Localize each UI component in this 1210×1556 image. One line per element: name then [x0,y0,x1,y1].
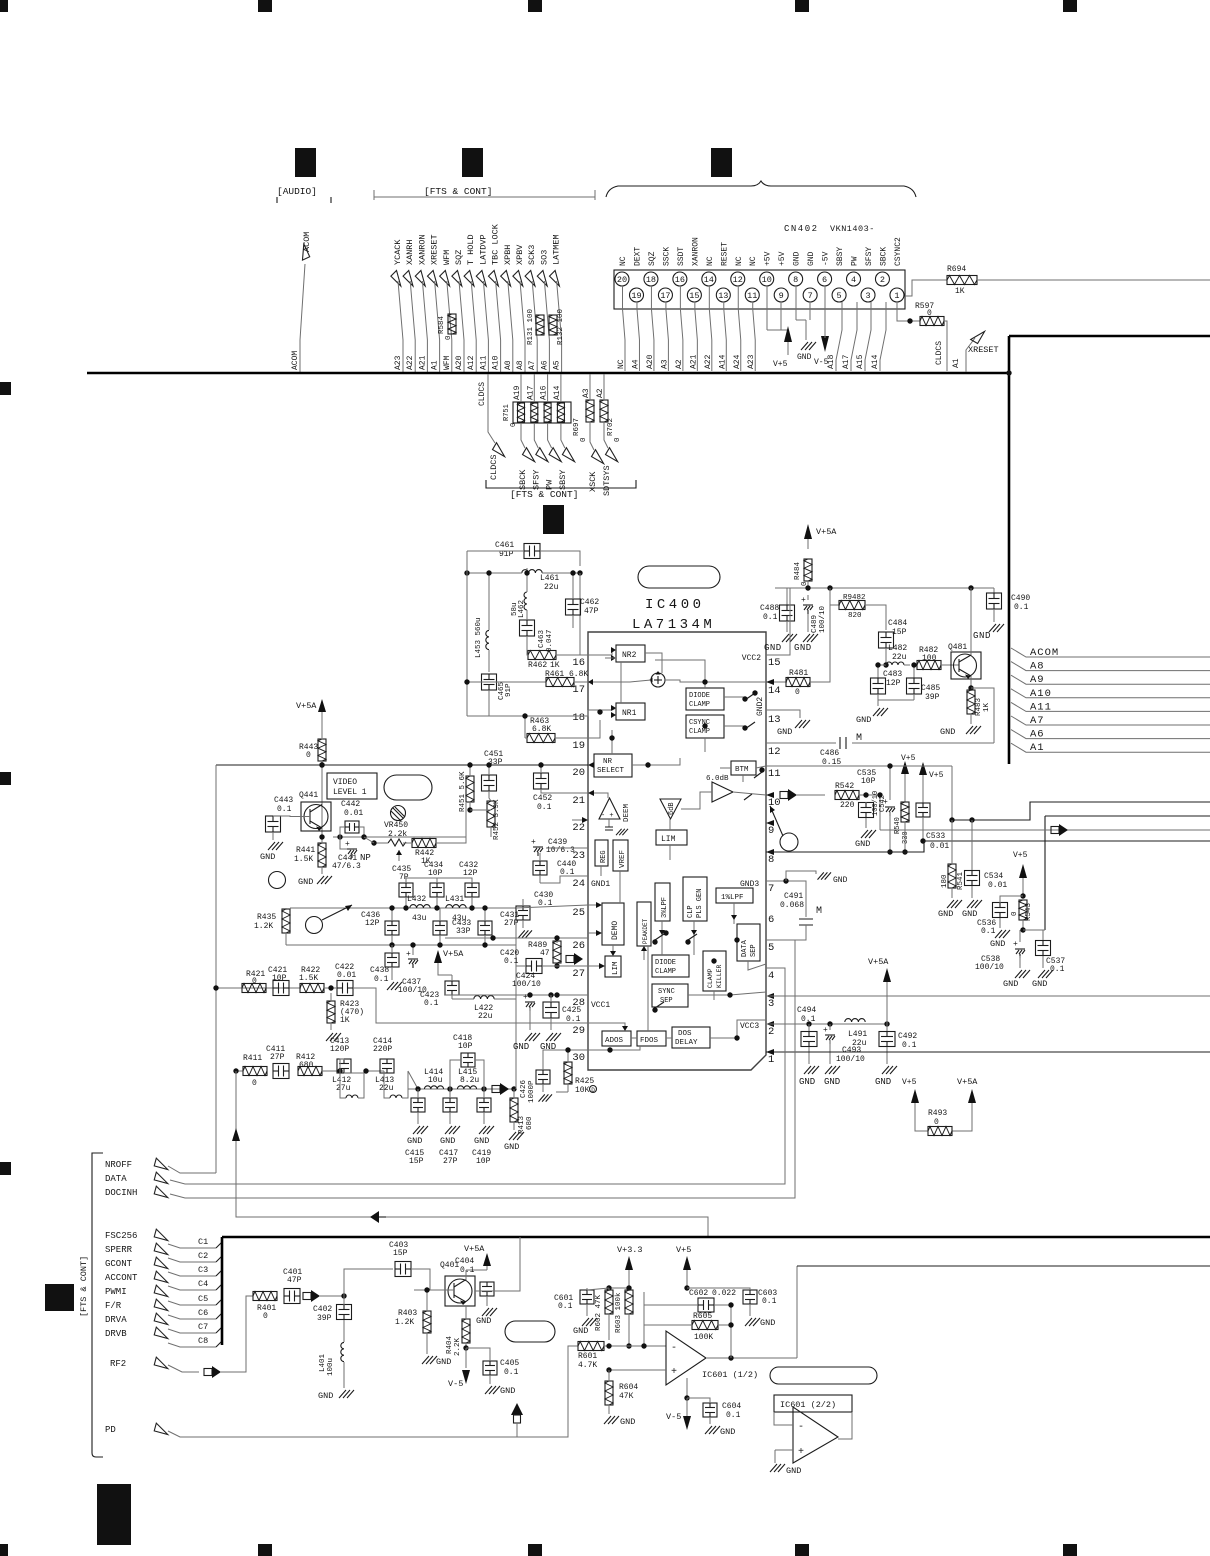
svg-text:0.1: 0.1 [1050,965,1065,974]
svg-text:13: 13 [718,291,728,301]
svg-text:PD: PD [105,1425,116,1435]
svg-text:11: 11 [747,291,757,301]
wire A7 line [1011,716,1210,725]
wire lower ladder [408,1088,514,1090]
wire arrow line [236,1071,708,1237]
svg-text:10P: 10P [272,974,287,983]
svg-text:120P: 120P [330,1045,349,1054]
svg-text:GND: GND [298,877,313,887]
capacitor C403 15P [395,1262,411,1277]
svg-text:R484: R484 [794,561,802,580]
svg-text:R132 100: R132 100 [557,308,565,345]
power V+5A pin2 [883,968,891,982]
svg-text:100u: 100u [327,1358,335,1376]
wire CLDCS drop [944,321,947,371]
svg-text:R452 3.9K: R452 3.9K [493,799,501,840]
svg-text:8: 8 [768,854,774,866]
svg-text:GND: GND [875,1077,891,1087]
svg-text:GND: GND [973,631,991,641]
svg-text:0: 0 [510,423,518,427]
svg-text:GND: GND [540,1042,556,1052]
svg-text:NC: NC [617,359,626,369]
svg-text:GND1: GND1 [591,880,610,889]
svg-text:C483: C483 [883,670,902,679]
block VREF [613,840,628,871]
resistor R603 100k [625,1290,633,1314]
capacitor C536 0.1 [993,903,1008,918]
block CLAMP KILLER [703,951,726,991]
wire pin10 net [797,794,825,796]
wire C461 loop top [467,550,524,552]
svg-text:[FTS & CONT]: [FTS & CONT] [79,1256,89,1317]
svg-text:22u: 22u [892,653,907,662]
wire Q481 to pin12 line [971,688,994,743]
CN402 pin 11 [745,288,759,302]
power +5V at CN402 [766,286,768,330]
svg-text:XPBH: XPBH [503,245,513,265]
capacitor C405 0.1 [483,1361,497,1375]
svg-text:10K: 10K [575,1086,590,1095]
wire ACOM to bus [300,264,305,372]
power V+5 R543 [1019,864,1027,878]
block CSYNC CLAMP [686,715,724,738]
CN402 pin 15 [687,288,701,302]
wire T HOLD to bus [471,281,476,372]
adjust circle 2 [306,917,323,934]
svg-text:-: - [798,1422,804,1433]
svg-text:R751: R751 [503,404,511,421]
svg-text:15P: 15P [409,1157,424,1166]
svg-text:A5: A5 [553,360,562,370]
wire thick C bus [221,1237,224,1345]
block DEMO [602,903,624,945]
wire pin29 net [445,1022,588,1024]
svg-text:2.2k: 2.2k [388,830,407,839]
wire CN402 pin drop A3 [665,302,667,309]
wire pin19 net [588,720,600,738]
svg-text:A24: A24 [733,354,742,369]
svg-text:V-5: V-5 [666,1412,681,1422]
wire SQZ to bus [459,281,464,372]
svg-text:GND: GND [962,909,977,919]
svg-text:R462: R462 [528,661,547,670]
svg-text:R413: R413 [518,1115,526,1134]
svg-text:C602: C602 [689,1289,708,1298]
svg-text:PW: PW [851,256,860,266]
svg-text:0.1: 0.1 [762,1297,777,1306]
svg-text:C490: C490 [1011,594,1030,603]
capacitor C484 15P [879,632,894,648]
inductor L491 22u [845,1019,865,1022]
wire deem cap [608,819,610,827]
svg-text:R694: R694 [947,265,966,274]
svg-text:R411: R411 [243,1054,262,1063]
svg-text:A17: A17 [842,354,851,369]
svg-text:T HOLD: T HOLD [466,234,476,265]
wire pin27 lim [588,965,605,967]
wire thick bottom long [222,1236,1210,1239]
svg-text:27: 27 [572,968,585,980]
svg-text:820: 820 [848,612,862,620]
CN402 pin 7 [803,288,817,302]
svg-text:12P: 12P [463,869,478,878]
svg-text:17: 17 [660,291,670,301]
block SYNC SEP [652,984,688,1007]
svg-text:GND: GND [573,1326,588,1336]
svg-text:0: 0 [1011,911,1019,916]
wire sw5 [754,772,762,778]
inductor L461 22u [522,570,542,573]
wire C2 [168,1258,216,1262]
svg-text:27P: 27P [443,1157,458,1166]
svg-text:DEEM: DEEM [623,803,631,822]
brace over CN402 [606,181,916,197]
svg-text:IC601 (1/2): IC601 (1/2) [702,1370,758,1380]
wire ladder left [285,940,287,945]
resistor R462 1K [528,651,556,660]
resistor R435 1.2K [282,909,290,933]
wire A17 to SFSY [533,374,535,402]
svg-text:26: 26 [572,940,585,952]
svg-text:GND: GND [764,643,782,653]
svg-text:V+5: V+5 [902,1078,917,1087]
wire CN402 pin drop A20 [650,286,652,309]
svg-text:3: 3 [865,291,870,301]
svg-text:DEXT: DEXT [633,247,642,266]
svg-text:1K: 1K [340,1016,350,1025]
svg-text:C542: C542 [879,795,887,812]
svg-text:43u: 43u [412,914,427,923]
wire NROFF [168,1166,216,1173]
inductor L453 560u [486,630,489,649]
wire pin1 long [766,1051,1210,1053]
svg-text:47P: 47P [584,607,599,616]
svg-text:0.1: 0.1 [801,1015,816,1024]
CN402 pin 1 [890,288,904,302]
svg-text:47P: 47P [287,1276,302,1285]
wire C8 [168,1343,216,1347]
svg-text:R601: R601 [578,1352,597,1361]
svg-text:19: 19 [631,291,641,301]
wire pin26 net [445,937,588,939]
svg-text:0.1: 0.1 [902,1041,917,1050]
wire ladder to pins [515,908,517,966]
svg-text:C3: C3 [198,1265,208,1275]
wire y1266 long [797,1265,1210,1267]
wire demo in2 [588,932,602,934]
svg-text:C486: C486 [820,749,839,758]
svg-text:7: 7 [808,291,813,301]
svg-text:WFM: WFM [442,250,452,265]
svg-text:CLAMP: CLAMP [689,701,710,709]
svg-text:R425: R425 [575,1077,594,1086]
svg-text:+: + [801,596,806,605]
block LIM 2 [605,956,621,977]
svg-text:330: 330 [902,831,910,844]
svg-text:0.022: 0.022 [712,1289,736,1298]
CN402 pin 5 [832,288,846,302]
resistor R451 5.6K [466,776,474,802]
svg-text:GND: GND [513,1042,529,1052]
svg-text:680: 680 [299,1061,314,1070]
svg-text:[AUDIO]: [AUDIO] [277,186,317,197]
resistor R755 in network [557,403,564,422]
svg-text:6: 6 [822,275,827,285]
svg-text:V+5: V+5 [773,360,788,369]
svg-text:27u: 27u [336,1084,351,1093]
svg-text:0.1: 0.1 [726,1411,741,1420]
svg-text:R435: R435 [257,913,276,922]
wire CN402 pin drop A2 [679,286,681,309]
wire R411 row [236,1070,243,1072]
wire RF2 path [168,1365,199,1372]
block DOS DELAY [672,1027,710,1048]
svg-text:V+3.3: V+3.3 [617,1245,643,1255]
wire DATA [170,968,785,1184]
svg-text:1K: 1K [955,287,965,296]
svg-text:GND: GND [318,1391,333,1401]
resistor R752 in network [518,403,525,422]
svg-text:100/10: 100/10 [836,1055,865,1064]
svg-text:R604: R604 [619,1383,638,1392]
svg-text:A17: A17 [526,385,535,400]
svg-text:7: 7 [768,883,774,895]
svg-text:A21: A21 [418,355,427,370]
capacitor C485 39P [913,665,915,678]
inductor L482 22u [880,664,886,666]
svg-text:25: 25 [572,907,585,919]
svg-text:SELECT: SELECT [597,767,625,775]
svg-text:-: - [671,1343,677,1354]
svg-text:C533: C533 [926,832,945,841]
wire 1lpf dn [733,903,735,924]
svg-text:VKN1403-: VKN1403- [830,224,875,234]
wire 2/2 out [838,1412,852,1439]
svg-text:DATA: DATA [741,939,749,957]
wire vert x516 [515,966,517,1089]
block BTM [731,761,756,775]
svg-text:DRVB: DRVB [105,1329,127,1339]
wire Q441 emitter row [333,836,466,838]
svg-text:A19: A19 [513,385,522,400]
svg-text:1: 1 [768,1054,774,1066]
wire CN402 drop A14 [880,302,886,371]
wire exit B vertical [1045,815,1210,817]
stadium bottom [505,1321,555,1342]
svg-text:A9: A9 [1030,674,1045,686]
svg-text:GND: GND [777,727,792,737]
svg-text:SFSY: SFSY [865,247,874,266]
svg-text:C461: C461 [495,541,514,550]
capacitor C461 91P [524,544,540,559]
wire pin20 in [588,762,594,768]
wire CN402 pin drop NC [622,286,624,309]
svg-text:22: 22 [572,822,585,834]
wire exit C arrow [880,829,1210,831]
svg-text:+5V: +5V [764,251,773,266]
svg-text:C443: C443 [274,796,293,805]
svg-text:DELAY: DELAY [675,1039,698,1047]
capacitor C419 10P [477,1098,491,1112]
capacitor C440 0.1 [533,861,547,875]
wire pin11 net [766,765,952,767]
wire pin21 in [588,793,608,798]
svg-text:A1: A1 [431,360,440,370]
svg-text:A12: A12 [467,355,476,370]
svg-text:1: 1 [894,291,899,301]
resistor R422 1.5K [300,984,324,993]
svg-text:SCK3: SCK3 [527,245,537,265]
svg-text:R543: R543 [1025,902,1033,921]
svg-text:NROFF: NROFF [105,1160,132,1170]
wire A16 to PW [547,374,549,402]
wire sum out [665,680,766,682]
svg-text:XANRON: XANRON [417,234,427,265]
svg-text:220P: 220P [373,1045,392,1054]
svg-text:CLAMP: CLAMP [655,968,676,976]
bracket [FTS & CONT] left [92,1153,103,1457]
wire LATDVP to bus [483,281,488,372]
svg-text:0: 0 [252,1079,257,1088]
svg-text:C426: C426 [520,1079,528,1098]
arrow C401 [303,1293,311,1300]
svg-text:GND: GND [500,1386,515,1396]
wire sw4 [744,794,752,800]
wire XANRH to bus [410,281,415,372]
svg-text:6.8K: 6.8K [532,725,551,734]
svg-text:+: + [531,838,536,847]
capacitor C411 27P [273,1064,289,1079]
svg-text:+5V: +5V [778,251,787,266]
resistor R694 1K [905,280,947,296]
svg-text:0: 0 [263,1312,268,1321]
svg-text:C5: C5 [198,1294,208,1304]
wire CN402 pin drop A24 [737,286,739,309]
wire A9 line [1011,675,1210,684]
wire int v4 [693,935,695,955]
wire LATMEM to bus [557,281,562,372]
svg-text:C4: C4 [198,1279,208,1289]
wire C3 [168,1272,216,1276]
arrow pin2 head [766,1021,774,1027]
svg-text:R131 100: R131 100 [527,308,535,345]
block REG [595,840,608,866]
wire A6 line [1011,730,1210,739]
svg-text:XRESET: XRESET [430,234,440,265]
svg-text:SEP: SEP [750,944,758,957]
svg-text:SBSY: SBSY [558,470,568,490]
svg-text:Q441: Q441 [299,791,318,800]
wire out up [796,1266,798,1358]
arrow into R413 node [492,1086,500,1093]
block 3%LPF [655,883,670,921]
block DIODE CLAMP 2 [652,955,689,977]
wire adjust arrow [322,905,352,920]
svg-text:0.1: 0.1 [763,613,778,622]
power V+5A at R443 [318,699,326,712]
wire int v1 [647,946,649,1031]
svg-text:ACCONT: ACCONT [105,1273,138,1283]
svg-text:10/6.3: 10/6.3 [546,846,575,855]
svg-text:0.1: 0.1 [504,1368,519,1377]
svg-text:GND: GND [620,1417,635,1427]
resistor R9482 820 [830,588,840,605]
wire sw3 [655,1002,664,1008]
svg-text:R540: R540 [894,817,902,834]
svg-text:DATA: DATA [105,1174,127,1184]
wire x467 to pin18 [467,710,588,716]
wire vref [619,871,621,880]
wire A19 to SBCK [520,374,522,402]
svg-text:22u: 22u [852,1039,867,1048]
wire pin11 net [756,766,766,768]
svg-text:5: 5 [768,942,774,954]
svg-text:4: 4 [768,970,774,982]
svg-text:DIODE: DIODE [689,692,710,700]
svg-text:0.1: 0.1 [374,975,389,984]
svg-text:CLDCS: CLDCS [935,341,944,365]
svg-text:R441: R441 [296,846,315,855]
wire ACOM line [1011,648,1210,657]
wire left vert x467 [466,551,468,716]
svg-text:24: 24 [572,878,585,890]
svg-text:9: 9 [779,291,784,301]
svg-text:A10: A10 [1030,688,1052,700]
wire A1 line [1011,743,1210,752]
wire Q481 collector [970,588,972,655]
svg-text:29: 29 [572,1025,585,1037]
stadium video [384,775,432,800]
svg-text:NC: NC [619,256,628,266]
wire XRESET to bus [435,281,440,372]
resistor R441 1.5K [318,843,326,867]
svg-text:100: 100 [922,654,937,663]
svg-text:10P: 10P [458,1042,473,1051]
svg-text:39P: 39P [317,1314,332,1323]
svg-text:A1: A1 [952,358,961,368]
resistor R754 in network [544,403,551,422]
svg-text:M: M [856,733,862,744]
resistor R412 680 [298,1067,322,1076]
wire to C403 [344,1269,393,1296]
resistor R541 180 [948,864,956,888]
svg-text:100/10: 100/10 [819,605,827,633]
wire sw1 [655,934,664,940]
svg-text:A18: A18 [827,354,836,369]
arrow pin3 head [766,993,774,999]
transistor Q481 [951,652,981,679]
svg-text:15P: 15P [892,628,907,637]
wire int v3 [661,935,663,955]
svg-text:39P: 39P [925,693,940,702]
svg-text:2: 2 [768,1026,774,1038]
resistor R404 2.2K [462,1319,470,1343]
wire CN402 drop A18 [836,302,842,371]
svg-text:0: 0 [306,751,311,760]
CN402 pin 2 [875,272,889,286]
svg-text:C425: C425 [562,1006,581,1015]
svg-text:C494: C494 [797,1006,816,1015]
svg-text:0.1: 0.1 [1014,603,1029,612]
arrow pin26 [566,956,574,963]
svg-text:GND: GND [504,1142,519,1152]
resistor R540 330 [901,802,909,822]
resistor R602 47K [605,1290,613,1314]
svg-text:15: 15 [768,657,781,669]
svg-text:0.1: 0.1 [277,805,292,814]
svg-text:680: 680 [526,1116,534,1130]
svg-text:0.01: 0.01 [988,881,1007,890]
